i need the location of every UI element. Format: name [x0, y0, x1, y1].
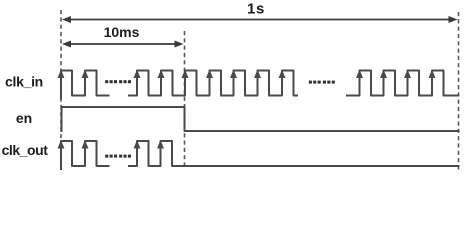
clk_in rising-edge arrowhead 7	[230, 70, 237, 79]
clk_out rising-edge arrowhead 2	[82, 140, 89, 149]
clk_in waveform segment C (last four pulses)	[347, 71, 459, 96]
clk_in rising-edge arrowhead 5	[182, 70, 189, 79]
dashed marker line at t=0	[60, 10, 62, 170]
dimension arrow 1s	[62, 16, 458, 23]
svg-text:1s: 1s	[247, 1, 265, 18]
clk_in rising-edge arrowhead 2	[82, 70, 89, 79]
clk_in rising-edge arrowhead 13	[429, 70, 436, 79]
clk_in ellipsis dots (first gap)	[105, 80, 131, 83]
svg-text:clk_in: clk_in	[5, 74, 43, 90]
clk_in rising-edge arrowhead 8	[254, 70, 261, 79]
clk_in rising-edge arrowhead 10	[356, 70, 363, 79]
clk_in rising-edge arrowhead 1	[58, 70, 65, 79]
svg-text:10ms: 10ms	[104, 24, 140, 40]
clk_out rising-edge arrowhead 3	[134, 140, 141, 149]
clk_in rising-edge arrowhead 4	[158, 70, 165, 79]
dimension arrow 10ms	[62, 41, 184, 48]
clk_out ellipsis dots	[105, 155, 131, 158]
clk_in rising-edge arrowhead 12	[404, 70, 411, 79]
clk_in rising-edge arrowhead 11	[380, 70, 387, 79]
clk_out waveform segment B (last two pulses, then gated low)	[129, 141, 459, 166]
clk_in waveform segment A (first two pulses)	[61, 71, 109, 99]
clk_in rising-edge arrowhead 9	[279, 70, 286, 79]
clk_in rising-edge arrowhead 6	[206, 70, 213, 79]
clk_out rising-edge arrowhead 4	[157, 140, 164, 149]
clk_in ellipsis dots (second gap)	[309, 81, 335, 84]
svg-text:en: en	[16, 110, 32, 126]
svg-text:clk_out: clk_out	[2, 142, 49, 158]
dashed marker line at t=1s	[458, 12, 460, 171]
clk_out rising-edge arrowhead 1	[58, 140, 65, 149]
clk_in rising-edge arrowhead 3	[134, 70, 141, 79]
en waveform (high during 10ms window, then low)	[62, 107, 459, 131]
clk_out waveform segment A (first two pulses)	[61, 141, 109, 169]
dashed marker line at t=10ms	[184, 31, 186, 165]
clk_in waveform segment B (seven pulses around 10ms boundary)	[129, 71, 297, 96]
